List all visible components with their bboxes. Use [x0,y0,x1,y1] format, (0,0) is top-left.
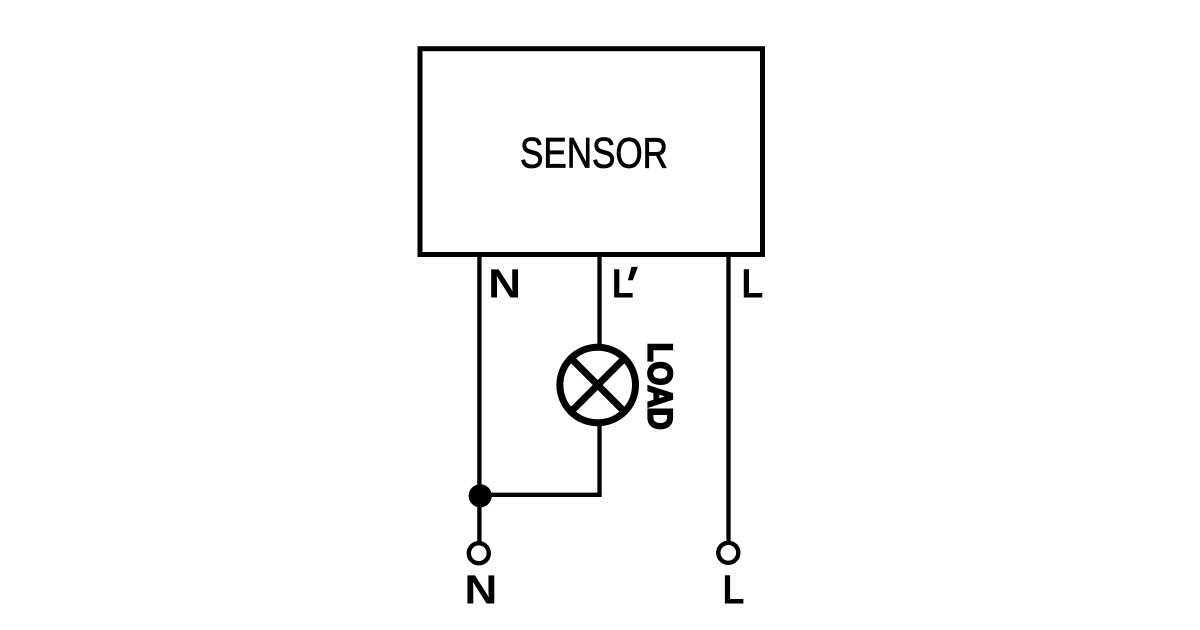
svg-text:L: L [612,261,634,307]
wire L' lower (lamp to junction) [597,422,601,495]
terminal L (open circle) [718,543,738,563]
sensor box U1 [420,49,763,255]
svg-text:L: L [723,566,745,612]
junction dot [469,484,492,507]
svg-text:SENSOR: SENSOR [520,130,668,178]
wire N (from sensor to terminal N) [477,252,481,546]
terminal N (open circle) [469,543,489,563]
svg-text:N: N [488,261,521,307]
svg-text:LOAD: LOAD [641,343,679,430]
wire L' upper (sensor to lamp) [597,252,601,348]
svg-text:N: N [464,566,497,612]
wire junction-to-lamp horizontal [479,493,601,497]
wire L (sensor to terminal L) [726,252,730,545]
svg-text:L: L [741,260,763,306]
lamp LOAD [560,347,636,423]
